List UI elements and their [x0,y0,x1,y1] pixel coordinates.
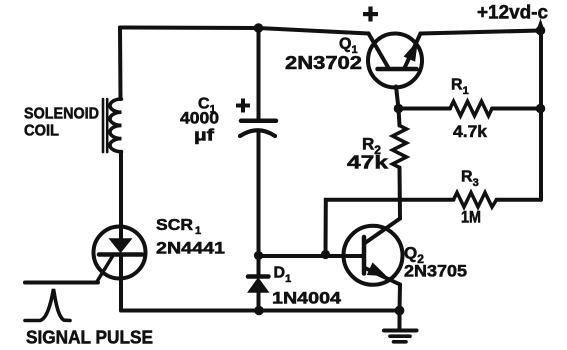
resistor R1 zigzag [450,101,492,116]
transistor Q1 base bar [378,67,417,72]
svg-text:D1: D1 [274,265,292,286]
svg-text:R3: R3 [461,169,479,190]
svg-text:2N4441: 2N4441 [156,239,225,258]
svg-text:SIGNAL PULSE: SIGNAL PULSE [26,328,153,348]
inductor L1 solenoid coil humps [110,99,122,152]
wire top-left horizontal [120,28,369,34]
SCR gate diagonal [97,256,113,282]
node dot top wire / C1 [254,23,264,33]
wire R2 top lead [399,109,400,126]
svg-text:1M: 1M [461,208,481,227]
wire Q2 base horizontal [259,254,365,258]
diode D1 cathode bar [248,274,269,279]
SCR U1 circle [94,227,146,279]
transistor Q1 circle [368,34,422,88]
wire R3 right to rail [497,198,542,202]
svg-text:+12vd-c: +12vd-c [477,3,548,24]
wire R2 bottom to Q2 collector junction [398,168,403,219]
svg-text:COIL: COIL [24,123,59,140]
ground bar 1 [384,329,417,333]
plus sign C1 [236,99,250,113]
node dot base wire / D1 [254,251,263,260]
ground bar 2 [390,334,410,338]
resistor R3 zigzag [454,193,497,208]
svg-text:µf: µf [194,126,214,145]
node dot ground [395,306,405,316]
transistor Q2 emitter arrow [368,264,384,275]
transistor Q2 collector diagonal [365,219,400,244]
transistor Q2 circle [344,226,403,285]
+12v arrow tick [538,20,544,29]
capacitor C1 top lead [257,28,261,119]
transistor Q1 right diagonal (emitter) [405,34,421,69]
wire Q2 emitter down to ground node [398,285,403,311]
svg-text:SOLENOID: SOLENOID [24,106,99,123]
wire R1 right to rail [492,107,541,111]
ground stem [398,311,402,330]
node dot +12v corner [536,26,546,36]
diode D1 top lead [257,256,261,275]
capacitor C1 bottom lead [257,132,261,256]
wire solenoid to SCR [119,152,123,239]
wire left vertical (top corner to solenoid) [118,28,123,100]
wire Q1 base lead down [396,87,399,109]
node dot Q1 base / R1 / R2 [394,104,404,114]
node dot riser junction [321,250,330,259]
svg-text:1: 1 [195,225,201,237]
transistor Q1 left diagonal (collector) [369,34,389,69]
transistor Q1 emitter arrow [405,44,416,61]
svg-text:2N3702: 2N3702 [285,53,362,73]
wire top-right horizontal [421,31,541,34]
wire bottom horizontal [121,309,400,313]
capacitor C1 curved plate [240,130,275,136]
svg-text:1N4004: 1N4004 [272,289,342,308]
wire SCR cathode down [119,256,123,311]
wire SCR gate horizontal [25,281,98,285]
SCR anode triangle (filled, pointing down) [110,239,131,252]
node dot R1 right rail [536,104,546,114]
capacitor C1 top plate [241,119,276,124]
signal pulse waveform [25,289,70,321]
solenoid core lines [103,99,107,152]
svg-text:2N3705: 2N3705 [404,262,467,281]
diode D1 bottom lead [257,292,261,311]
resistor R2 zigzag [393,126,407,168]
svg-text:47k: 47k [347,153,389,173]
svg-text:SCR: SCR [156,217,193,234]
SCR cathode bar [99,252,142,257]
wire right rail vertical [539,31,543,200]
svg-text:4.7k: 4.7k [453,122,488,141]
transistor Q2 emitter diagonal [365,268,400,285]
ground bar 3 [394,340,407,344]
svg-text:R1: R1 [451,77,469,98]
wire Q1 base node to R1 [399,107,451,111]
wire riser from base node up [326,200,454,255]
diode D1 triangle (filled, pointing up) [249,279,269,293]
node dot D1 bottom [254,306,264,316]
plus sign Q1 emitter [363,7,378,22]
transistor Q2 base bar [362,237,367,274]
